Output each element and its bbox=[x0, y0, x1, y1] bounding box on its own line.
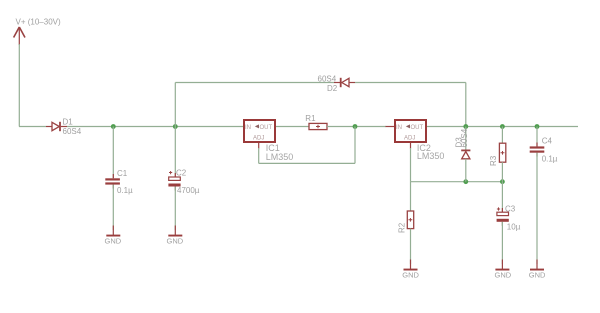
wire C3 to GND bbox=[501, 222, 503, 264]
svg-text:R3: R3 bbox=[489, 155, 498, 166]
wire IC2 ADJ horizontal bbox=[411, 181, 503, 183]
wire top bypass left vertical bbox=[174, 83, 176, 127]
wire V+ vertical bbox=[18, 44, 20, 127]
wire R2 to GND bbox=[410, 229, 412, 264]
ground GND under C3 bbox=[495, 260, 512, 280]
svg-text:4700µ: 4700µ bbox=[177, 186, 200, 195]
diode D2 60S4 bbox=[318, 75, 356, 94]
svg-text:GND: GND bbox=[529, 271, 546, 280]
junction node R3 bottom bbox=[500, 179, 505, 184]
svg-text:60S4: 60S4 bbox=[460, 128, 469, 147]
capacitor C2 4700u polarized bbox=[168, 169, 199, 196]
junction node D3 top bbox=[463, 124, 468, 129]
svg-text:60S4: 60S4 bbox=[63, 127, 82, 136]
regulator IC2 LM350 body bbox=[395, 120, 426, 142]
svg-text:IN: IN bbox=[245, 125, 251, 131]
diode D1 60S4 bbox=[46, 118, 82, 137]
resistor R2 bbox=[398, 211, 414, 233]
svg-text:0.1µ: 0.1µ bbox=[542, 154, 558, 163]
wire D3 top lead bbox=[465, 127, 467, 150]
pin IC2 IN stub bbox=[386, 126, 395, 128]
wire C4 to GND bbox=[536, 153, 538, 264]
svg-text:V+ (10–30V): V+ (10–30V) bbox=[16, 17, 61, 26]
wire IC2 ADJ down bbox=[410, 148, 412, 182]
junction node at C1 branch bbox=[111, 124, 116, 129]
resistor R3 bbox=[489, 143, 506, 166]
wire top bypass right vertical bbox=[465, 83, 467, 127]
wire D1 to IC1 bbox=[67, 126, 243, 128]
wire R1 to IC2 bbox=[327, 126, 386, 128]
junction node D3 bottom bbox=[463, 179, 468, 184]
svg-text:C3: C3 bbox=[505, 204, 516, 213]
wire main rail left to D1 bbox=[19, 126, 46, 128]
resistor R1 bbox=[305, 114, 327, 130]
svg-text:OUT: OUT bbox=[411, 125, 424, 131]
svg-text:GND: GND bbox=[105, 237, 122, 246]
wire junction to C1 bbox=[112, 127, 114, 179]
wire IC1 ADJ up to junction bbox=[354, 127, 356, 164]
wire R3 junction to C3 bbox=[501, 182, 503, 212]
svg-text:ADJ: ADJ bbox=[253, 136, 264, 142]
pin IC2 ADJ stub bbox=[410, 143, 412, 149]
junction node R3 top bbox=[500, 124, 505, 129]
svg-text:C2: C2 bbox=[176, 169, 187, 178]
capacitor C4 0.1u bbox=[530, 137, 558, 164]
diode D3 60S4 vertical bbox=[455, 128, 471, 159]
wire C1 to GND bbox=[112, 185, 114, 230]
svg-text:R1: R1 bbox=[305, 114, 316, 123]
wire D3 bottom lead bbox=[465, 159, 467, 182]
wire junction to C2 bbox=[174, 127, 176, 178]
pin IC1 ADJ stub bbox=[258, 143, 260, 149]
junction node C4 top bbox=[535, 124, 540, 129]
wire top bypass horizontal right bbox=[355, 82, 466, 84]
wire top bypass horizontal left bbox=[175, 82, 334, 84]
svg-text:LM350: LM350 bbox=[266, 152, 294, 162]
junction node at C2 branch bbox=[173, 124, 178, 129]
regulator IC1 LM350 body bbox=[244, 120, 275, 142]
wire IC1 ADJ horizontal bbox=[259, 162, 355, 164]
svg-text:60S4: 60S4 bbox=[318, 75, 337, 84]
svg-text:OUT: OUT bbox=[260, 125, 273, 131]
svg-text:GND: GND bbox=[495, 271, 512, 280]
svg-text:GND: GND bbox=[402, 271, 419, 280]
capacitor C3 10u polarized bbox=[497, 204, 521, 231]
svg-text:ADJ: ADJ bbox=[404, 136, 415, 142]
wire IC1 ADJ down bbox=[258, 148, 260, 163]
svg-text:IN: IN bbox=[396, 125, 402, 131]
supply symbol V+ arrow bbox=[14, 27, 25, 45]
svg-text:D1: D1 bbox=[63, 118, 74, 127]
wire IC1 OUT to R1 bbox=[276, 126, 309, 128]
wire IC2 OUT rail bbox=[427, 126, 578, 128]
svg-text:C1: C1 bbox=[117, 169, 128, 178]
ground GND under C1 bbox=[105, 226, 122, 246]
wire C4 top lead bbox=[536, 127, 538, 147]
ground GND under C4 bbox=[529, 260, 546, 280]
wire C2 to GND bbox=[174, 187, 176, 231]
wire R2 top lead bbox=[410, 182, 412, 211]
wire R3 bottom lead bbox=[501, 162, 503, 182]
junction node R1/ADJ1 bbox=[353, 124, 358, 129]
svg-text:10µ: 10µ bbox=[507, 223, 521, 232]
svg-text:LM350: LM350 bbox=[417, 151, 445, 161]
ground GND under R2 bbox=[402, 260, 419, 280]
svg-text:GND: GND bbox=[167, 237, 184, 246]
svg-text:D2: D2 bbox=[327, 84, 338, 93]
svg-text:C4: C4 bbox=[542, 137, 553, 146]
svg-text:R2: R2 bbox=[398, 222, 407, 233]
capacitor C1 0.1u bbox=[105, 169, 133, 195]
ground GND under C2 bbox=[167, 226, 184, 246]
svg-text:0.1µ: 0.1µ bbox=[117, 186, 133, 195]
wire R3 top lead bbox=[501, 127, 503, 144]
